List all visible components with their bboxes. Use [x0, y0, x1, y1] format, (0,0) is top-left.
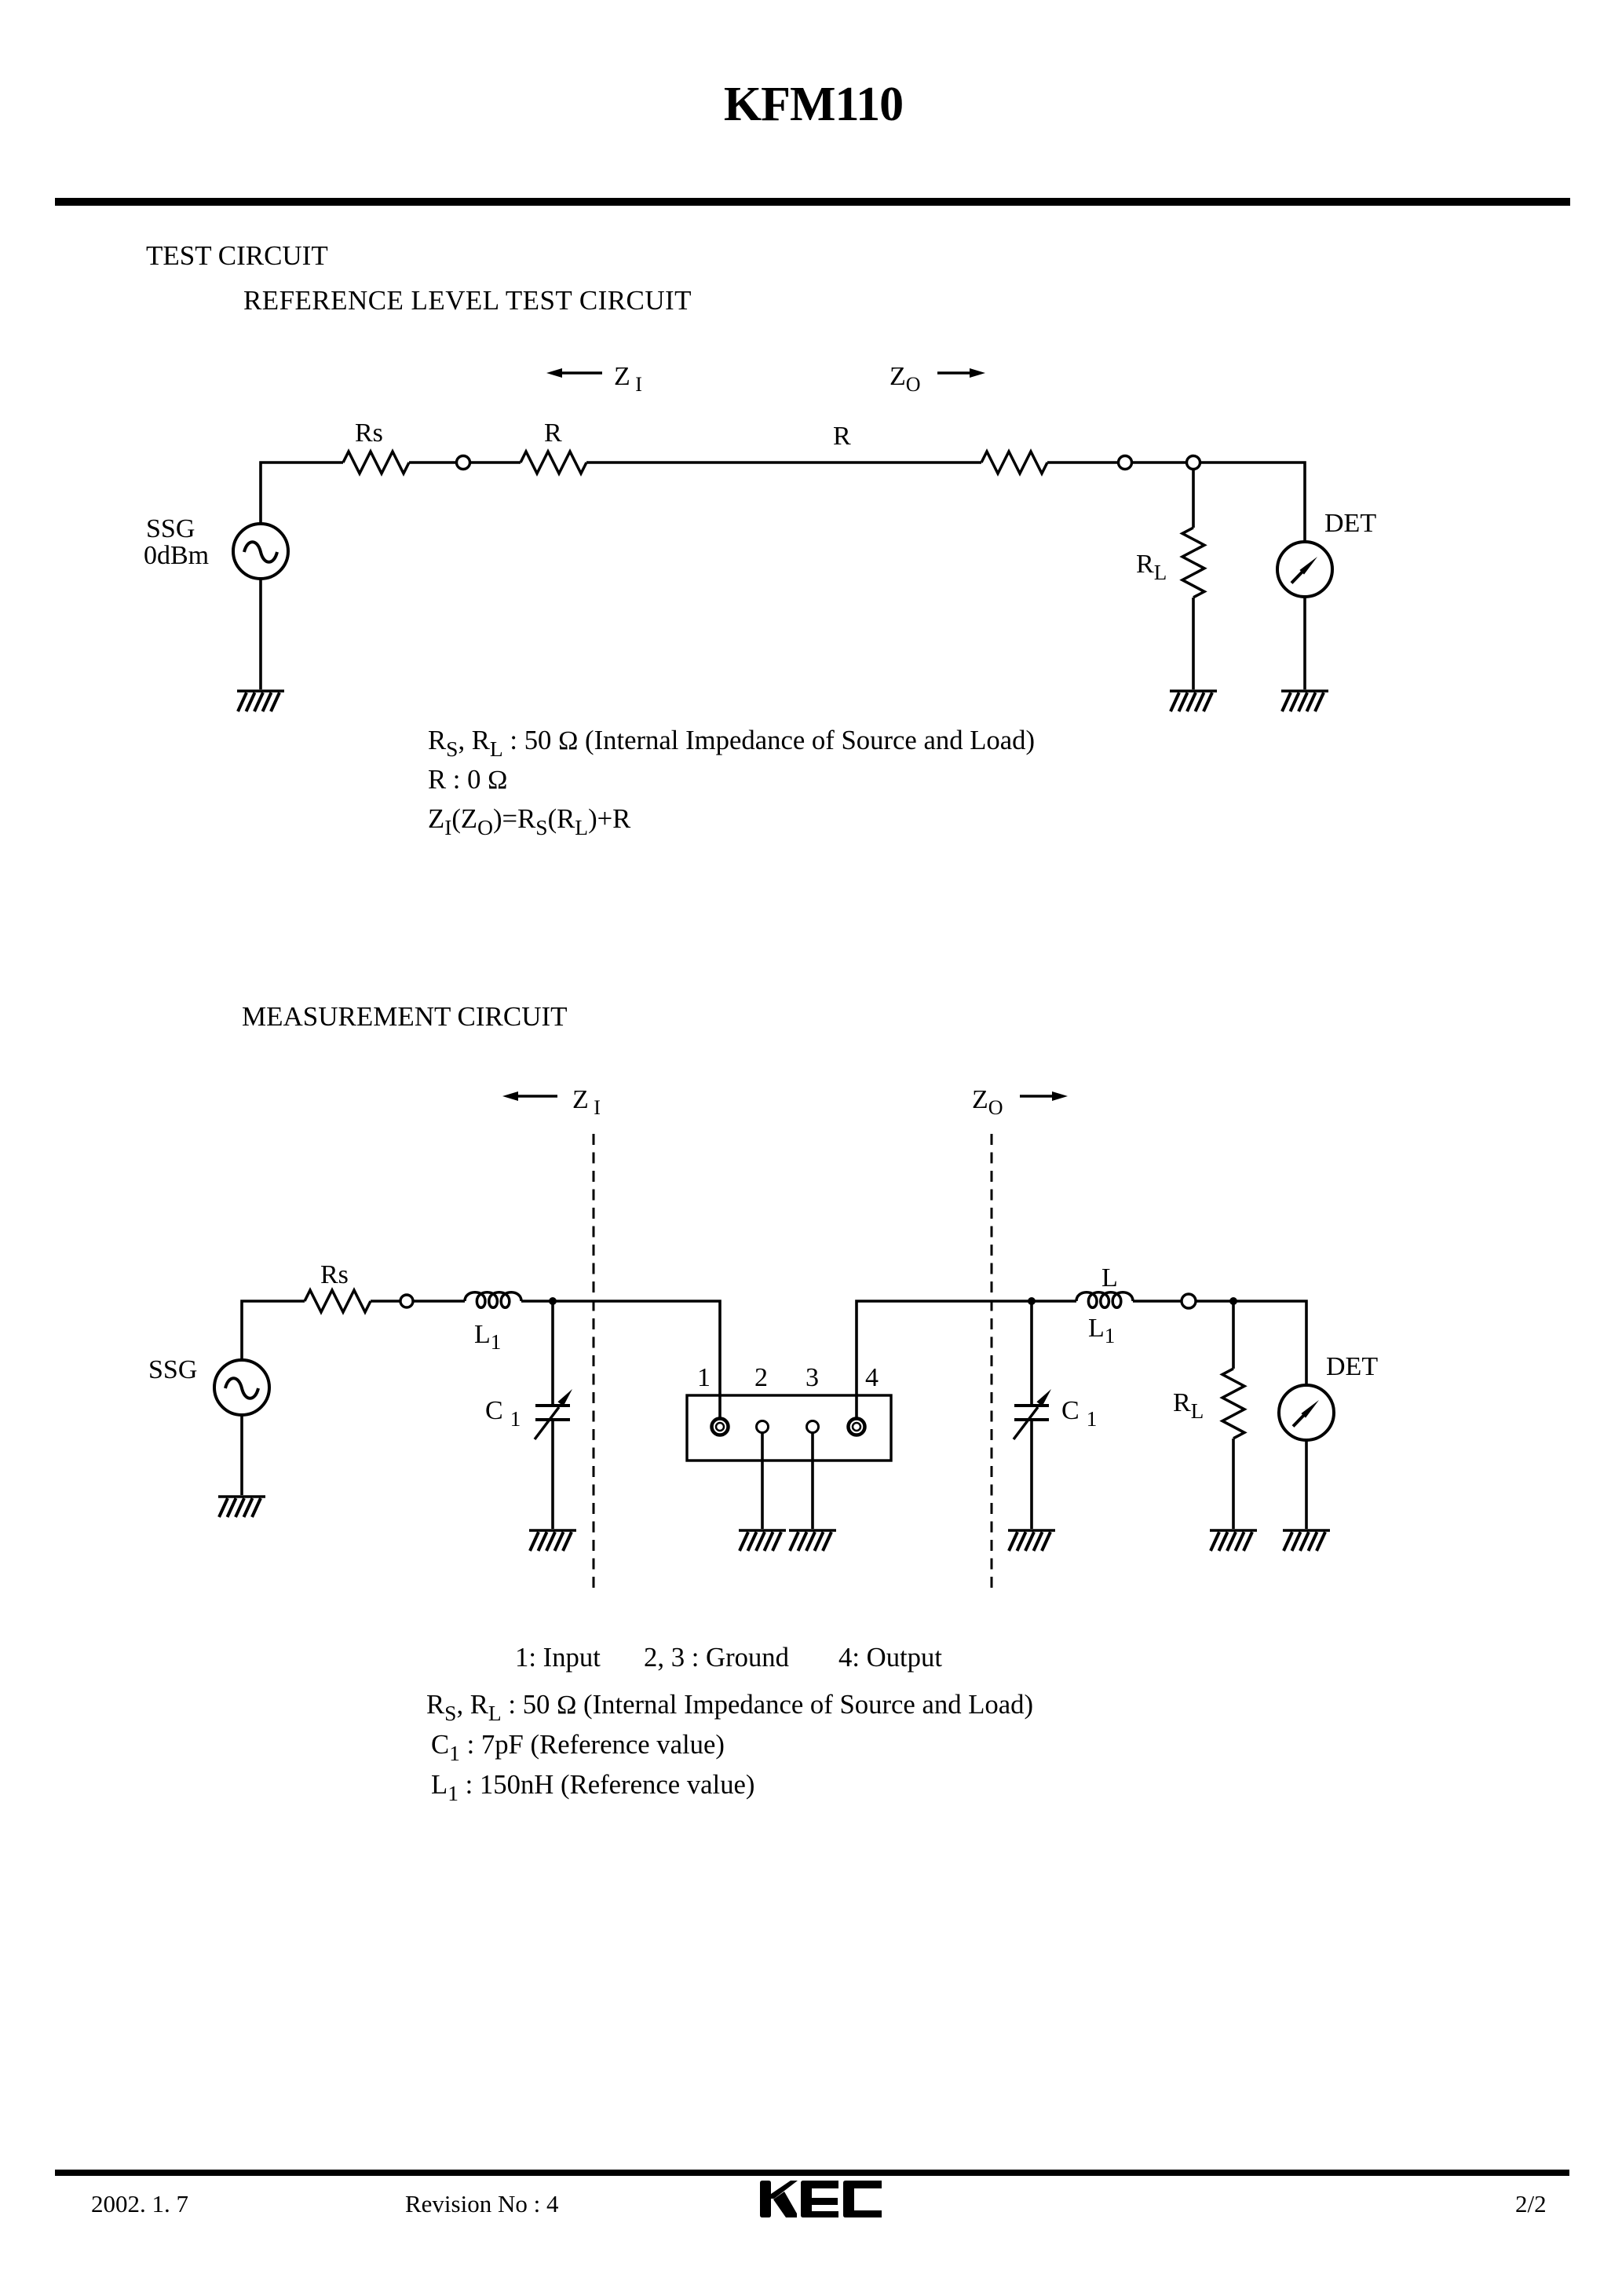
- svg-text:R : 0 Ω: R : 0 Ω: [428, 764, 507, 795]
- svg-text:1: 1: [697, 1363, 711, 1392]
- wire junction to C1 right: [1030, 1301, 1033, 1406]
- KEC logo K: [760, 2181, 798, 2217]
- capacitor C1 right (variable): [1014, 1389, 1051, 1439]
- pin 1 terminal: [712, 1419, 729, 1435]
- node terminal circle: [1119, 456, 1132, 470]
- wire junction to C1: [551, 1301, 554, 1406]
- wire SSG top corner: [261, 462, 343, 524]
- resistor Rs: [343, 452, 409, 473]
- footer rule: [55, 2170, 1569, 2176]
- ground DET: [1281, 691, 1328, 711]
- svg-text:L1 : 150nH (Reference value): L1 : 150nH (Reference value): [431, 1769, 755, 1805]
- node terminal circle: [457, 456, 470, 470]
- svg-text:4: Output: 4: Output: [838, 1642, 942, 1673]
- boundary dashed line ZI: [593, 1134, 595, 1589]
- resistor R output: [981, 452, 1047, 473]
- KEC logo C: [843, 2181, 882, 2217]
- svg-text:RS, RL : 50 Ω (Internal Imped: RS, RL : 50 Ω (Internal Impedance of Sou…: [428, 725, 1035, 761]
- svg-text:4: 4: [865, 1363, 879, 1392]
- junction dot C1 right: [1028, 1297, 1036, 1305]
- wire pin 4 up and to junction: [857, 1301, 1076, 1419]
- svg-text:DET: DET: [1324, 509, 1376, 538]
- svg-text:ZO: ZO: [972, 1085, 1003, 1119]
- svg-text:3: 3: [806, 1363, 819, 1392]
- svg-text:Rs: Rs: [355, 419, 383, 448]
- svg-text:2, 3 : Ground: 2, 3 : Ground: [644, 1642, 789, 1673]
- resistor RL: [1182, 528, 1204, 598]
- ground SSG: [218, 1497, 265, 1517]
- svg-text:R: R: [833, 422, 851, 451]
- DUT box: [687, 1395, 891, 1461]
- svg-text:KFM110: KFM110: [724, 78, 903, 131]
- svg-text:Z I: Z I: [614, 362, 642, 396]
- svg-text:RL: RL: [1173, 1388, 1204, 1423]
- wire L1 to junction and to pin 1: [521, 1301, 720, 1419]
- wire SSG to ground: [240, 1415, 243, 1495]
- svg-text:RL: RL: [1136, 550, 1167, 584]
- svg-text:C1: C1: [485, 1396, 521, 1431]
- svg-text:SSG: SSG: [148, 1355, 197, 1384]
- svg-text:2/2: 2/2: [1515, 2190, 1547, 2217]
- wire middle: [586, 461, 981, 464]
- svg-text:MEASUREMENT CIRCUIT: MEASUREMENT CIRCUIT: [242, 1001, 568, 1032]
- wire C1 right to ground: [1030, 1420, 1033, 1529]
- ground DET right: [1283, 1530, 1330, 1551]
- inductor L right: [1076, 1292, 1133, 1308]
- wire node to RL: [1192, 469, 1195, 528]
- wire junction to RL: [1232, 1301, 1235, 1369]
- node terminal circle: [1182, 1294, 1196, 1308]
- wire SSG top corner: [242, 1301, 305, 1360]
- boundary dashed line ZO: [991, 1134, 993, 1589]
- capacitor C1 left (variable): [535, 1389, 572, 1439]
- impedance arrow ZI: [502, 1091, 557, 1101]
- wire Rs to node: [409, 461, 456, 464]
- svg-text:RS, RL : 50 Ω (Internal Imped: RS, RL : 50 Ω (Internal Impedance of Sou…: [426, 1689, 1033, 1725]
- wire node to L1: [413, 1300, 465, 1303]
- svg-text:SSG: SSG: [146, 514, 195, 543]
- svg-text:Z I: Z I: [572, 1085, 601, 1119]
- ground C1 right: [1008, 1530, 1055, 1551]
- wire R to node: [1047, 461, 1118, 464]
- impedance arrow ZO: [937, 368, 985, 378]
- wire L to node: [1133, 1300, 1182, 1303]
- ground C1 left: [529, 1530, 576, 1551]
- meter DET: [1277, 542, 1332, 597]
- wire Rs to node: [371, 1300, 400, 1303]
- wire between nodes: [1132, 461, 1186, 464]
- wire DET to ground: [1305, 1440, 1308, 1529]
- wire node to DET corner: [1196, 1301, 1306, 1385]
- node terminal circle: [400, 1295, 413, 1307]
- impedance arrow ZI: [546, 368, 602, 378]
- svg-text:Rs: Rs: [320, 1260, 349, 1289]
- svg-text:ZO: ZO: [890, 362, 921, 396]
- ground SSG: [237, 691, 284, 711]
- wire C1 to ground: [551, 1420, 554, 1529]
- pin 3 terminal: [807, 1421, 819, 1433]
- svg-text:TEST CIRCUIT: TEST CIRCUIT: [146, 240, 328, 271]
- junction dot C1 left: [549, 1297, 557, 1305]
- resistor R input: [521, 452, 586, 473]
- top rule: [55, 198, 1570, 206]
- wire pin 2 to ground: [761, 1432, 764, 1529]
- svg-text:0dBm: 0dBm: [144, 541, 209, 570]
- svg-text:DET: DET: [1326, 1352, 1378, 1381]
- ground pin 2: [739, 1530, 786, 1551]
- svg-text:L: L: [1101, 1263, 1118, 1292]
- svg-text:ZI(ZO)=RS(RL)+R: ZI(ZO)=RS(RL)+R: [428, 803, 631, 839]
- wire RL to ground: [1192, 598, 1195, 689]
- svg-text:L1: L1: [474, 1320, 501, 1354]
- resistor RL right: [1222, 1369, 1244, 1439]
- svg-text:1: Input: 1: Input: [515, 1642, 601, 1673]
- junction dot RL: [1229, 1297, 1237, 1305]
- wire SSG to ground: [259, 579, 262, 689]
- meter DET: [1279, 1385, 1334, 1440]
- svg-text:R: R: [544, 419, 562, 448]
- ground pin 3: [789, 1530, 836, 1551]
- ground RL right: [1210, 1530, 1257, 1551]
- svg-text:REFERENCE LEVEL TEST CIRCUIT: REFERENCE LEVEL TEST CIRCUIT: [243, 285, 692, 316]
- svg-text:2002. 1. 7: 2002. 1. 7: [91, 2190, 188, 2217]
- wire DET to ground: [1303, 597, 1306, 689]
- wire pin 3 to ground: [811, 1432, 814, 1529]
- resistor Rs: [305, 1290, 371, 1312]
- node terminal circle RL: [1187, 456, 1200, 470]
- pin 4 terminal: [849, 1419, 865, 1435]
- KEC logo E: [801, 2181, 838, 2217]
- svg-text:Revision No : 4: Revision No : 4: [405, 2190, 559, 2217]
- ground RL: [1170, 691, 1217, 711]
- SSG source: [214, 1360, 269, 1415]
- wire node to DET corner: [1200, 462, 1305, 542]
- svg-text:C1 : 7pF (Reference value): C1 : 7pF (Reference value): [431, 1729, 725, 1765]
- svg-text:2: 2: [754, 1363, 768, 1392]
- SSG source: [233, 524, 288, 579]
- pin 2 terminal: [757, 1421, 769, 1433]
- svg-text:C1: C1: [1061, 1396, 1097, 1431]
- impedance arrow ZO: [1020, 1091, 1068, 1101]
- wire RL to ground: [1232, 1439, 1235, 1529]
- svg-text:L1: L1: [1088, 1314, 1115, 1347]
- inductor L1 left: [465, 1292, 521, 1308]
- wire node to R: [470, 461, 521, 464]
